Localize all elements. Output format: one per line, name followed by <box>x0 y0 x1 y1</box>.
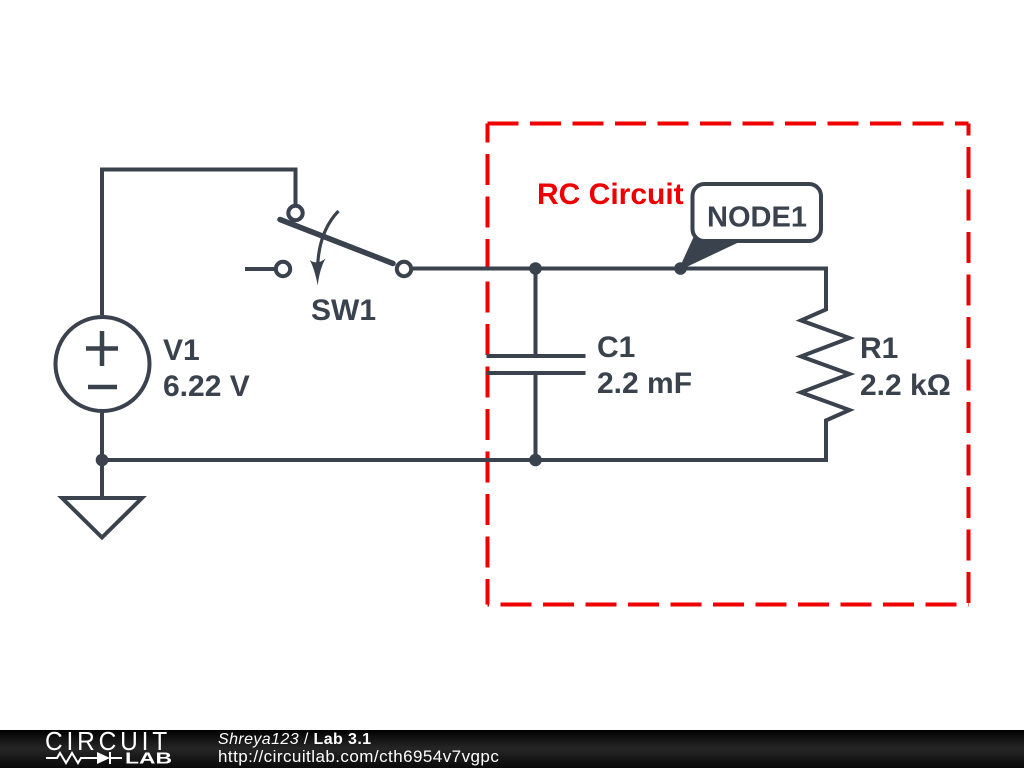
svg-text:2.2 mF: 2.2 mF <box>597 367 692 400</box>
svg-text:6.22 V: 6.22 V <box>163 370 250 403</box>
svg-text:2.2 kΩ: 2.2 kΩ <box>860 369 951 402</box>
svg-text:NODE1: NODE1 <box>707 202 807 234</box>
svg-text:RC Circuit: RC Circuit <box>537 178 684 211</box>
svg-text:Shreya123 / Lab 3.1: Shreya123 / Lab 3.1 <box>218 731 371 748</box>
svg-text:LAB: LAB <box>125 751 172 768</box>
svg-text:C1: C1 <box>597 331 635 364</box>
svg-text:V1: V1 <box>163 334 200 367</box>
svg-text:http://circuitlab.com/cth6954v: http://circuitlab.com/cth6954v7vgpc <box>218 747 499 766</box>
svg-text:SW1: SW1 <box>311 294 376 327</box>
svg-text:R1: R1 <box>860 332 898 365</box>
